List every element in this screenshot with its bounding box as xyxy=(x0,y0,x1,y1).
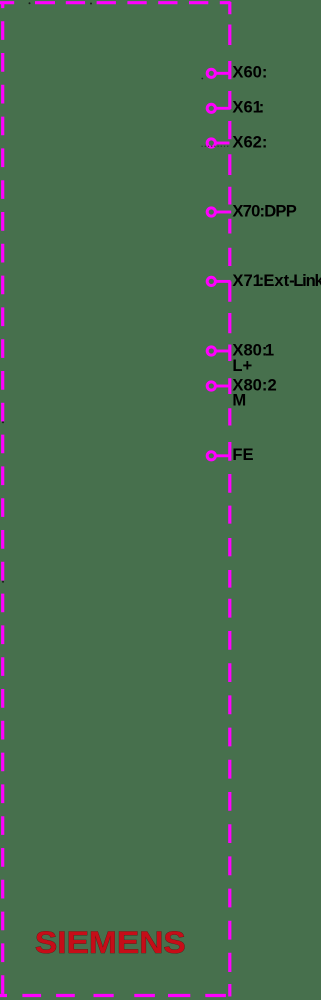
connection point X60 xyxy=(207,69,230,77)
svg-text:X62:: X62: xyxy=(232,132,267,151)
connection point X70 xyxy=(207,208,231,216)
grid dot on left border xyxy=(2,581,4,583)
svg-text:X61:: X61: xyxy=(232,98,264,117)
svg-text:M: M xyxy=(232,390,246,409)
connection point X71 xyxy=(207,277,230,285)
structure box dashed border: right edge xyxy=(228,2,231,997)
grid dot on top border xyxy=(90,3,92,5)
connection point X80:2 xyxy=(207,382,230,390)
grid dot left of X60 circle xyxy=(201,78,203,80)
svg-text:SIEMENS: SIEMENS xyxy=(35,925,186,960)
structure box dashed border: left edge xyxy=(1,2,4,996)
connection point FE xyxy=(207,452,230,460)
grid dot on left border xyxy=(2,421,4,423)
svg-text:X70:DPP: X70:DPP xyxy=(232,201,296,220)
svg-text:X71:Ext-Link: X71:Ext-Link xyxy=(232,271,321,290)
connection point X61 xyxy=(207,104,230,112)
connection point X62 xyxy=(202,139,230,147)
svg-text:L+: L+ xyxy=(232,356,252,375)
grid dot on top border xyxy=(29,2,31,4)
svg-text:X60:: X60: xyxy=(232,63,267,82)
connection point X80:1 xyxy=(207,347,230,355)
structure box dashed border: top edge xyxy=(0,1,231,4)
svg-text:FE: FE xyxy=(232,445,253,464)
structure box dashed border: bottom edge xyxy=(0,994,226,997)
